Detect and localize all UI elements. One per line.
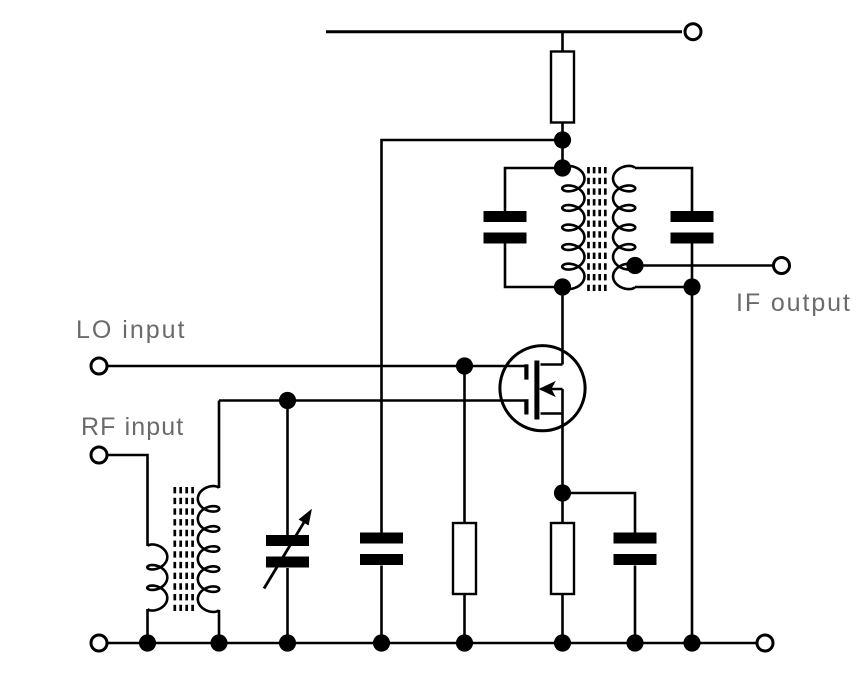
svg-text:IF output: IF output: [736, 289, 852, 317]
svg-text:LO input: LO input: [76, 316, 187, 344]
svg-text:RF input: RF input: [81, 413, 184, 441]
